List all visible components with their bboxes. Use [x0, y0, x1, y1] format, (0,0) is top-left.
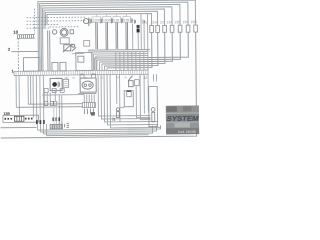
svg-text:22A: 22A — [151, 20, 158, 24]
svg-text:120: 120 — [124, 18, 130, 22]
svg-text:4a: 4a — [33, 26, 37, 30]
svg-text:23C: 23C — [183, 20, 190, 24]
svg-text:23: 23 — [160, 20, 164, 24]
svg-text:Cod. 2163/B: Cod. 2163/B — [178, 130, 197, 134]
svg-text:120A: 120A — [103, 18, 111, 22]
svg-text:23D: 23D — [191, 20, 198, 24]
svg-text:23B: 23B — [175, 20, 182, 24]
svg-text:12: 12 — [144, 76, 148, 80]
svg-text:120A: 120A — [93, 18, 101, 22]
svg-text:10: 10 — [13, 30, 18, 35]
svg-text:120: 120 — [114, 18, 120, 22]
svg-text:23A: 23A — [167, 20, 174, 24]
svg-text:SYSTEM: SYSTEM — [167, 116, 199, 123]
